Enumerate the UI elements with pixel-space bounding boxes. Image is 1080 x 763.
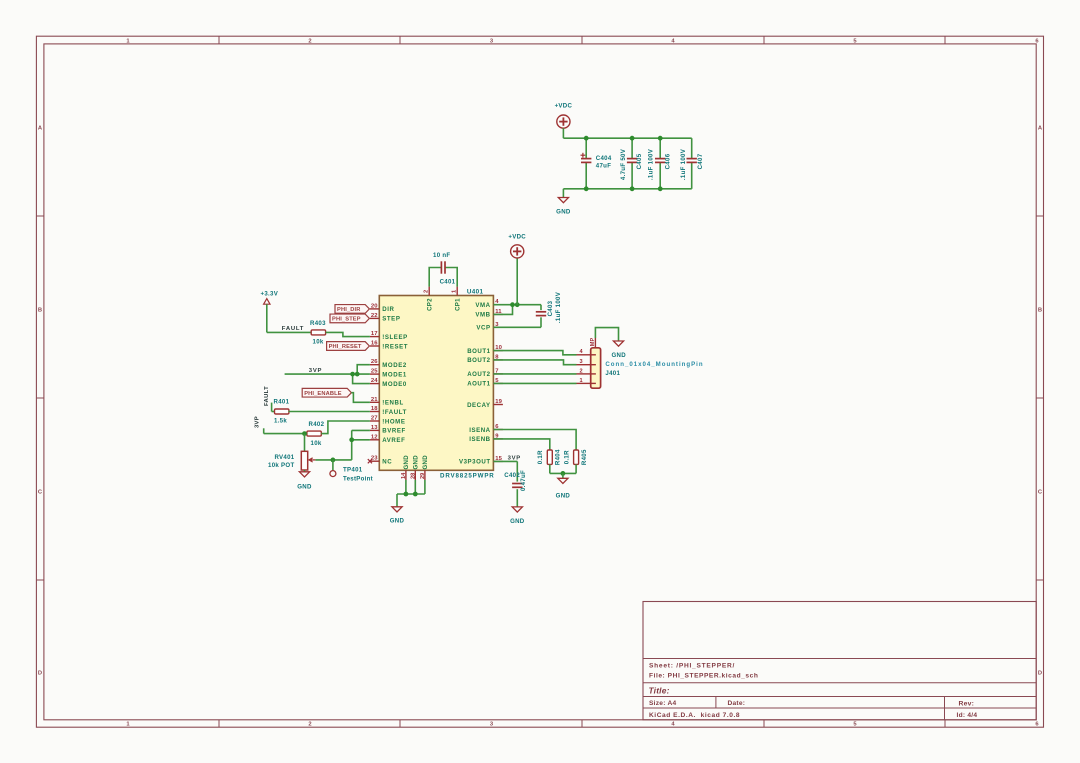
svg-text:ISENB: ISENB	[469, 436, 490, 443]
svg-text:J401: J401	[605, 370, 620, 377]
svg-text:AOUT2: AOUT2	[467, 371, 490, 378]
svg-text:KiCad E.D.A. kicad 7.0.8: KiCad E.D.A. kicad 7.0.8	[649, 712, 740, 719]
svg-text:0.1R: 0.1R	[563, 450, 570, 464]
svg-text:2: 2	[308, 38, 311, 44]
svg-text:!ENBL: !ENBL	[382, 400, 404, 407]
svg-text:3VP: 3VP	[508, 456, 521, 462]
svg-text:C404: C404	[596, 155, 612, 162]
svg-text:10k: 10k	[313, 339, 324, 346]
svg-text:21: 21	[371, 397, 378, 403]
svg-text:1: 1	[452, 290, 458, 293]
svg-text:DECAY: DECAY	[467, 402, 491, 409]
svg-text:19: 19	[495, 399, 502, 405]
svg-text:2: 2	[579, 368, 582, 374]
svg-text:D: D	[38, 671, 42, 677]
svg-text:STEP: STEP	[382, 316, 400, 323]
svg-text:B: B	[38, 308, 42, 314]
svg-text:C405: C405	[636, 153, 643, 169]
svg-text:C403: C403	[547, 300, 554, 316]
svg-text:4.7uF 50V: 4.7uF 50V	[620, 148, 627, 180]
svg-text:22: 22	[371, 313, 378, 319]
svg-text:Conn_01x04_MountingPin: Conn_01x04_MountingPin	[605, 361, 703, 368]
svg-text:17: 17	[371, 331, 378, 337]
svg-text:PHI_RESET: PHI_RESET	[329, 344, 362, 350]
svg-text:0.47uF: 0.47uF	[520, 470, 527, 491]
svg-text:+VDC: +VDC	[555, 103, 573, 110]
svg-text:File: PHI_STEPPER.kicad_sch: File: PHI_STEPPER.kicad_sch	[649, 673, 758, 680]
svg-text:0.1R: 0.1R	[537, 450, 544, 464]
svg-text:TP401: TP401	[343, 466, 363, 473]
svg-text:!RESET: !RESET	[382, 343, 408, 350]
svg-text:24: 24	[371, 378, 378, 384]
svg-text:14: 14	[401, 472, 407, 479]
svg-text:Title:: Title:	[649, 686, 670, 696]
svg-text:.1uF 100V: .1uF 100V	[647, 148, 654, 180]
svg-text:GND: GND	[403, 455, 410, 470]
svg-text:23: 23	[371, 456, 378, 462]
svg-text:R401: R401	[274, 399, 290, 406]
svg-text:MODE0: MODE0	[382, 381, 407, 388]
svg-text:V3P3OUT: V3P3OUT	[459, 459, 491, 466]
svg-text:Id: 4/4: Id: 4/4	[957, 712, 978, 719]
svg-text:C401: C401	[440, 278, 456, 285]
svg-text:18: 18	[371, 406, 378, 412]
svg-text:GND: GND	[612, 352, 627, 359]
svg-text:+3.3V: +3.3V	[260, 290, 278, 297]
svg-text:10k POT: 10k POT	[268, 462, 295, 469]
svg-text:25: 25	[371, 369, 378, 375]
svg-text:MODE1: MODE1	[382, 371, 407, 378]
svg-text:GND: GND	[556, 209, 571, 216]
svg-text:!SLEEP: !SLEEP	[382, 334, 408, 341]
svg-text:.1uF 100V: .1uF 100V	[555, 291, 562, 323]
svg-text:MP: MP	[590, 338, 596, 347]
svg-text:27: 27	[371, 416, 378, 422]
svg-text:10k: 10k	[311, 440, 322, 447]
svg-text:C407: C407	[697, 153, 704, 169]
svg-text:28: 28	[410, 473, 416, 479]
svg-text:B: B	[1038, 308, 1042, 314]
svg-text:29: 29	[420, 473, 426, 479]
svg-text:GND: GND	[297, 483, 312, 490]
svg-text:CP1: CP1	[455, 298, 462, 311]
svg-text:RV401: RV401	[274, 454, 294, 461]
svg-text:PHI_STEP: PHI_STEP	[332, 317, 361, 323]
svg-text:DRV8825PWPR: DRV8825PWPR	[440, 473, 495, 480]
svg-text:+VDC: +VDC	[508, 233, 526, 240]
svg-text:Rev:: Rev:	[959, 700, 975, 707]
svg-text:GND: GND	[422, 455, 429, 470]
svg-text:ISENA: ISENA	[469, 427, 490, 434]
svg-text:AVREF: AVREF	[382, 437, 405, 444]
svg-text:Sheet: /PHI_STEPPER/: Sheet: /PHI_STEPPER/	[649, 663, 735, 670]
svg-text:MODE2: MODE2	[382, 362, 407, 369]
svg-text:CP2: CP2	[427, 298, 434, 311]
svg-text:R403: R403	[310, 320, 326, 327]
svg-text:1: 1	[579, 378, 582, 384]
svg-text:VCP: VCP	[476, 325, 490, 332]
svg-text:3VP: 3VP	[255, 416, 261, 428]
svg-text:GND: GND	[510, 518, 525, 525]
svg-text:3VP: 3VP	[309, 368, 322, 374]
svg-text:TestPoint: TestPoint	[343, 476, 373, 483]
svg-text:R404: R404	[554, 449, 561, 465]
svg-text:VMB: VMB	[475, 312, 490, 319]
svg-text:C406: C406	[665, 153, 672, 169]
svg-text:16: 16	[371, 341, 378, 347]
svg-text:2: 2	[308, 721, 311, 727]
svg-text:U401: U401	[467, 288, 484, 295]
svg-text:BOUT1: BOUT1	[467, 348, 490, 355]
svg-text:BOUT2: BOUT2	[467, 357, 490, 364]
svg-text:GND: GND	[413, 455, 420, 470]
svg-text:26: 26	[371, 359, 378, 365]
svg-text:D: D	[1038, 671, 1042, 677]
svg-text:FAULT: FAULT	[282, 326, 304, 332]
svg-text:NC: NC	[382, 459, 392, 466]
svg-text:GND: GND	[390, 518, 405, 525]
svg-text:R405: R405	[581, 449, 588, 465]
svg-text:DIR: DIR	[382, 306, 394, 313]
svg-text:!HOME: !HOME	[382, 418, 405, 425]
svg-text:GND: GND	[556, 493, 571, 500]
svg-text:R402: R402	[309, 421, 325, 428]
svg-text:C402: C402	[504, 472, 520, 479]
svg-text:1.5k: 1.5k	[274, 418, 287, 425]
svg-text:12: 12	[371, 434, 378, 440]
svg-text:Size: A4: Size: A4	[649, 700, 676, 707]
svg-text:Date:: Date:	[728, 700, 746, 707]
svg-text:AOUT1: AOUT1	[467, 381, 490, 388]
svg-text:PHI_DIR: PHI_DIR	[337, 307, 361, 313]
svg-text:3: 3	[579, 359, 582, 365]
svg-text:FAULT: FAULT	[264, 386, 270, 406]
svg-text:10 nF: 10 nF	[433, 252, 450, 259]
svg-text:PHI_ENABLE: PHI_ENABLE	[304, 391, 342, 397]
svg-text:20: 20	[371, 303, 378, 309]
svg-text:VMA: VMA	[475, 302, 490, 309]
svg-text:BVREF: BVREF	[382, 428, 406, 435]
svg-text:!FAULT: !FAULT	[382, 409, 407, 416]
svg-text:.1uF 100V: .1uF 100V	[680, 148, 687, 180]
svg-text:47uF: 47uF	[596, 162, 611, 169]
svg-text:2: 2	[424, 290, 430, 293]
svg-text:13: 13	[371, 425, 378, 431]
